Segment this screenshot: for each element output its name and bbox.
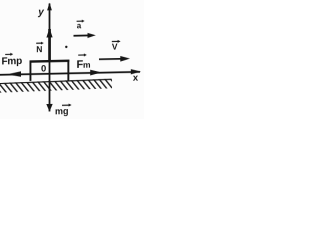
svg-text:Fmp: Fmp [2, 56, 23, 67]
svg-text:a: a [77, 21, 82, 30]
svg-text:V: V [112, 41, 118, 51]
svg-text:x: x [133, 72, 139, 83]
svg-text:y: y [37, 7, 44, 18]
svg-text:N: N [36, 44, 42, 54]
svg-text:0: 0 [41, 63, 46, 74]
svg-text:mg: mg [55, 106, 68, 116]
svg-text:m: m [83, 60, 91, 70]
